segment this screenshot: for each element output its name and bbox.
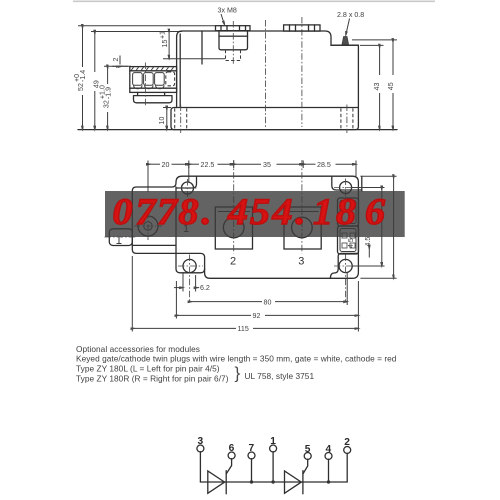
svg-text:22.5: 22.5 [201,161,215,169]
terminal 1 center line [232,21,234,64]
mounting hole bottom-right [339,259,352,272]
right vertical dim 51 (body width) [360,175,396,177]
dim 6.2 [182,272,184,292]
terminal M8 clamp 2 [284,25,320,31]
inner left edge double line [179,34,181,108]
dim 92 [175,281,177,319]
wire pin1 to bus [272,452,274,482]
svg-text:15: 15 [161,40,169,48]
plug pin cells [133,73,143,86]
terminal 1 nut block [219,31,248,37]
thyristor V2 cathode bar [302,471,304,494]
dimension 52 line [82,26,84,67]
svg-text:28.5: 28.5 [317,161,331,169]
dimension 52 extension line (terminal top level) [78,25,216,27]
svg-text:20: 20 [162,161,170,169]
svg-text:}: } [235,364,241,383]
svg-text:2.8 x 0.8: 2.8 x 0.8 [337,11,364,19]
small dim 4.5 [368,247,370,258]
svg-text:92: 92 [253,312,261,320]
thyristor V2 triangle [285,471,302,493]
corner pad arc top-right [332,176,362,190]
dimension 2 (small, above plug) [112,58,120,62]
terminal 4 circle [325,453,332,460]
terminal 1 hole (under watermark) [138,216,158,236]
terminal 2 circle [344,447,351,454]
svg-text:10: 10 [158,117,166,125]
wire gate2 [303,459,308,474]
wire pin4 to bus [328,459,330,482]
internal pocket floor hidden line [163,58,225,60]
svg-text:35: 35 [263,161,271,169]
svg-text:-1.9: -1.9 [105,87,113,99]
dimension 32 extension line (plug top level) [104,65,131,67]
svg-text:3: 3 [298,256,304,268]
flange top line [177,107,359,109]
baseline under module [78,129,397,131]
flange top extension for 10 dim [163,107,171,109]
terminal 1 pocket [219,36,248,50]
wire pin2 to bus [346,453,348,482]
dimension 49 line [94,32,96,72]
svg-text:80: 80 [264,298,272,306]
ticks [147,161,149,169]
svg-text:2: 2 [230,256,236,268]
svg-text:4.5: 4.5 [364,237,372,247]
faint scan border line at top [73,0,435,2]
svg-text:4 5: 4 5 [347,238,355,248]
dimension 15 [168,31,170,59]
svg-text:2: 2 [112,58,120,62]
right vertical dim 40 (hole centers) [352,187,385,189]
inner section line x=202 [201,31,203,64]
module center line [265,20,267,127]
svg-text:Type ZY 180L (L = Left for pi: Type ZY 180L (L = Left for pin pair 4/5) [76,363,220,373]
mounting hole left (hidden) [175,108,187,129]
thyristor V1 triangle [208,471,225,493]
label 32 +1.0/-1.9 [99,85,113,108]
svg-text:115: 115 [238,325,249,333]
thyristor V1 cathode bar [225,471,227,494]
corner pad arc bottom-right [330,253,358,278]
body outline top view [132,176,358,278]
top dimension chain [148,163,160,165]
dimension 10 [166,108,168,130]
junction pin7 [250,480,253,483]
wire pin3 to bus [199,452,201,482]
module body outline [171,31,358,130]
svg-text:Optional accessories for modul: Optional accessories for modules [76,344,200,354]
inner wall line top-right [361,176,363,191]
terminal 1 pedestal (hidden) [226,50,241,61]
terminal M8 clamp 1 [216,26,251,31]
pin numbers 4567 rotated [347,238,355,248]
bus wire [200,481,347,483]
junction pin1 [271,480,274,483]
svg-text:-1.4: -1.4 [79,70,87,82]
label 49 [92,80,100,88]
left plug top view [109,229,132,246]
dimension 32 line [107,67,109,85]
terminal 3 pad [284,207,321,249]
svg-text:+1: +1 [159,31,167,39]
terminal 3 circle [197,445,204,452]
dim 80 [190,301,262,303]
step top line right section [331,44,358,46]
svg-text:UL 758, style 3751: UL 758, style 3751 [245,371,315,381]
svg-text:52: 52 [77,83,85,91]
plug lower tail [134,92,173,102]
mounting hole top-right [340,182,352,194]
gate/cathode plug (side view) [130,67,177,93]
dimension 49 extension line (body top level) [91,31,182,33]
svg-text:3x M8: 3x M8 [218,7,237,15]
dim 115 [131,256,133,332]
terminal 7 circle [248,452,255,459]
extension step top for 43 [360,44,384,46]
corner pad arc top-left [176,176,197,188]
svg-text:43: 43 [373,83,381,91]
svg-text:6.2: 6.2 [200,284,210,292]
plug hatch ticks [131,67,174,70]
svg-text:45: 45 [387,82,395,90]
svg-text:Keyed gate/cathode twin plugs: Keyed gate/cathode twin plugs with wire … [76,353,397,363]
terminal 2 pad [215,207,252,249]
wire pin7 to bus [251,459,253,482]
label 52 +0/-1.4 [73,70,87,91]
svg-text:0778.454.186: 0778.454.186 [112,192,385,232]
faston tab 2.8x0.8 [342,37,349,45]
wire gate1 [226,459,231,474]
mounting hole top-left [182,182,194,194]
extension lines down [147,164,149,192]
terminal 5 circle [304,453,311,460]
bottom-left mounting tab [176,187,205,273]
terminal 1 circle [270,445,277,452]
terminal 6 circle [228,452,235,459]
junction pin4 [327,480,330,483]
svg-text:Type ZY 180R (R = Right for pi: Type ZY 180R (R = Right for pin pair 6/7… [76,373,229,383]
right connectors top view [338,198,359,226]
watermark band [105,191,405,237]
mounting hole bottom-left [183,259,196,272]
svg-text:32: 32 [103,100,111,108]
terminal 3 center line [301,17,303,127]
plug center line [144,63,146,107]
dimension 45 [392,40,394,75]
extension line tab top for 45 [352,39,397,41]
dimension 43 [379,46,381,75]
mounting hole right (hidden) [341,108,353,129]
